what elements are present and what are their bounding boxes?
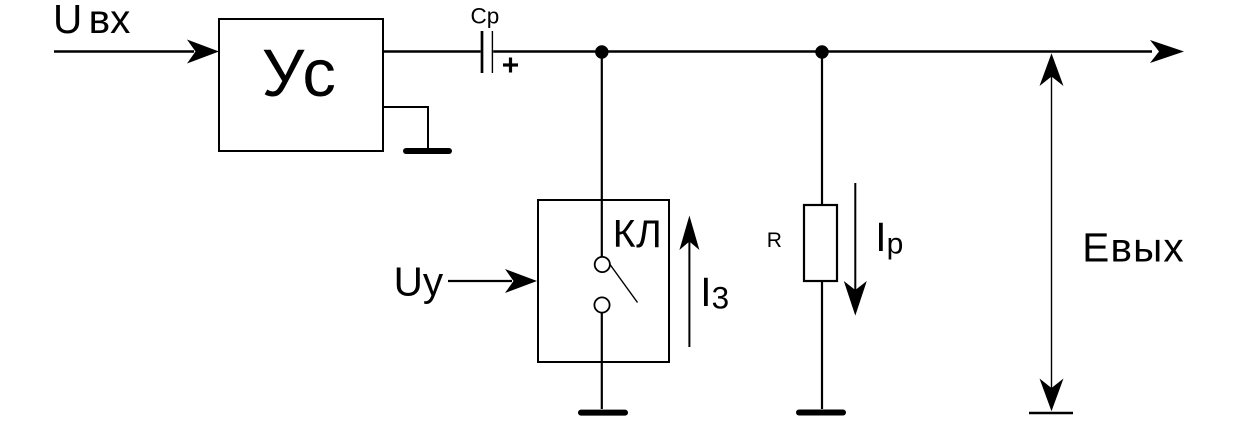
switch КЛ box (538, 200, 669, 362)
junction node at resistor branch (815, 45, 828, 58)
arrowhead E вых bottom (1040, 379, 1064, 412)
arrowhead E вых top (1040, 53, 1064, 86)
arrowhead Uy into switch (505, 269, 537, 293)
amplifier Ус box (219, 19, 383, 151)
node E вых bottom tick (1029, 412, 1073, 415)
wire input to amplifier (54, 50, 194, 52)
wire junction down to resistor (821, 52, 823, 205)
arrowhead input into Ус (187, 40, 219, 64)
svg-text:I3: I3 (700, 269, 729, 316)
arrowhead current Ip down (844, 281, 867, 316)
svg-text:R: R (767, 229, 782, 252)
arrowhead current Iз up (679, 216, 699, 251)
switch lower contact (594, 297, 609, 312)
switch upper contact (595, 257, 610, 272)
ground under amplifier (406, 148, 449, 154)
resistor R (804, 205, 837, 281)
svg-text:Uвх: Uвх (53, 0, 130, 42)
svg-text:КЛ: КЛ (613, 213, 663, 256)
wire resistor to ground (821, 281, 823, 409)
wire current Iз arrow stem (688, 238, 690, 347)
ground under switch (581, 410, 625, 416)
switch blade (610, 265, 638, 303)
wire amplifier ground stub (383, 107, 428, 149)
wire control input Uy (448, 280, 512, 282)
svg-text:Eвых: Eвых (1082, 225, 1184, 271)
wire switch to ground (601, 313, 603, 409)
wire capacitor to output arrow (493, 50, 1152, 52)
ground under resistor (799, 410, 843, 416)
svg-text:Cp: Cp (471, 4, 500, 29)
wire amplifier output to capacitor (383, 50, 481, 52)
wire current Ip arrow stem (854, 183, 856, 293)
capacitor polarity + (503, 58, 518, 73)
capacitor Cp (482, 31, 492, 73)
svg-text:Iр: Iр (875, 214, 903, 261)
svg-text:Ус: Ус (262, 36, 339, 111)
wire E вых measure line (1051, 75, 1053, 390)
wire junction down to switch (601, 52, 603, 257)
arrowhead output right (1150, 40, 1184, 63)
junction node at switch branch (595, 45, 608, 58)
svg-text:Uу: Uу (394, 259, 444, 305)
